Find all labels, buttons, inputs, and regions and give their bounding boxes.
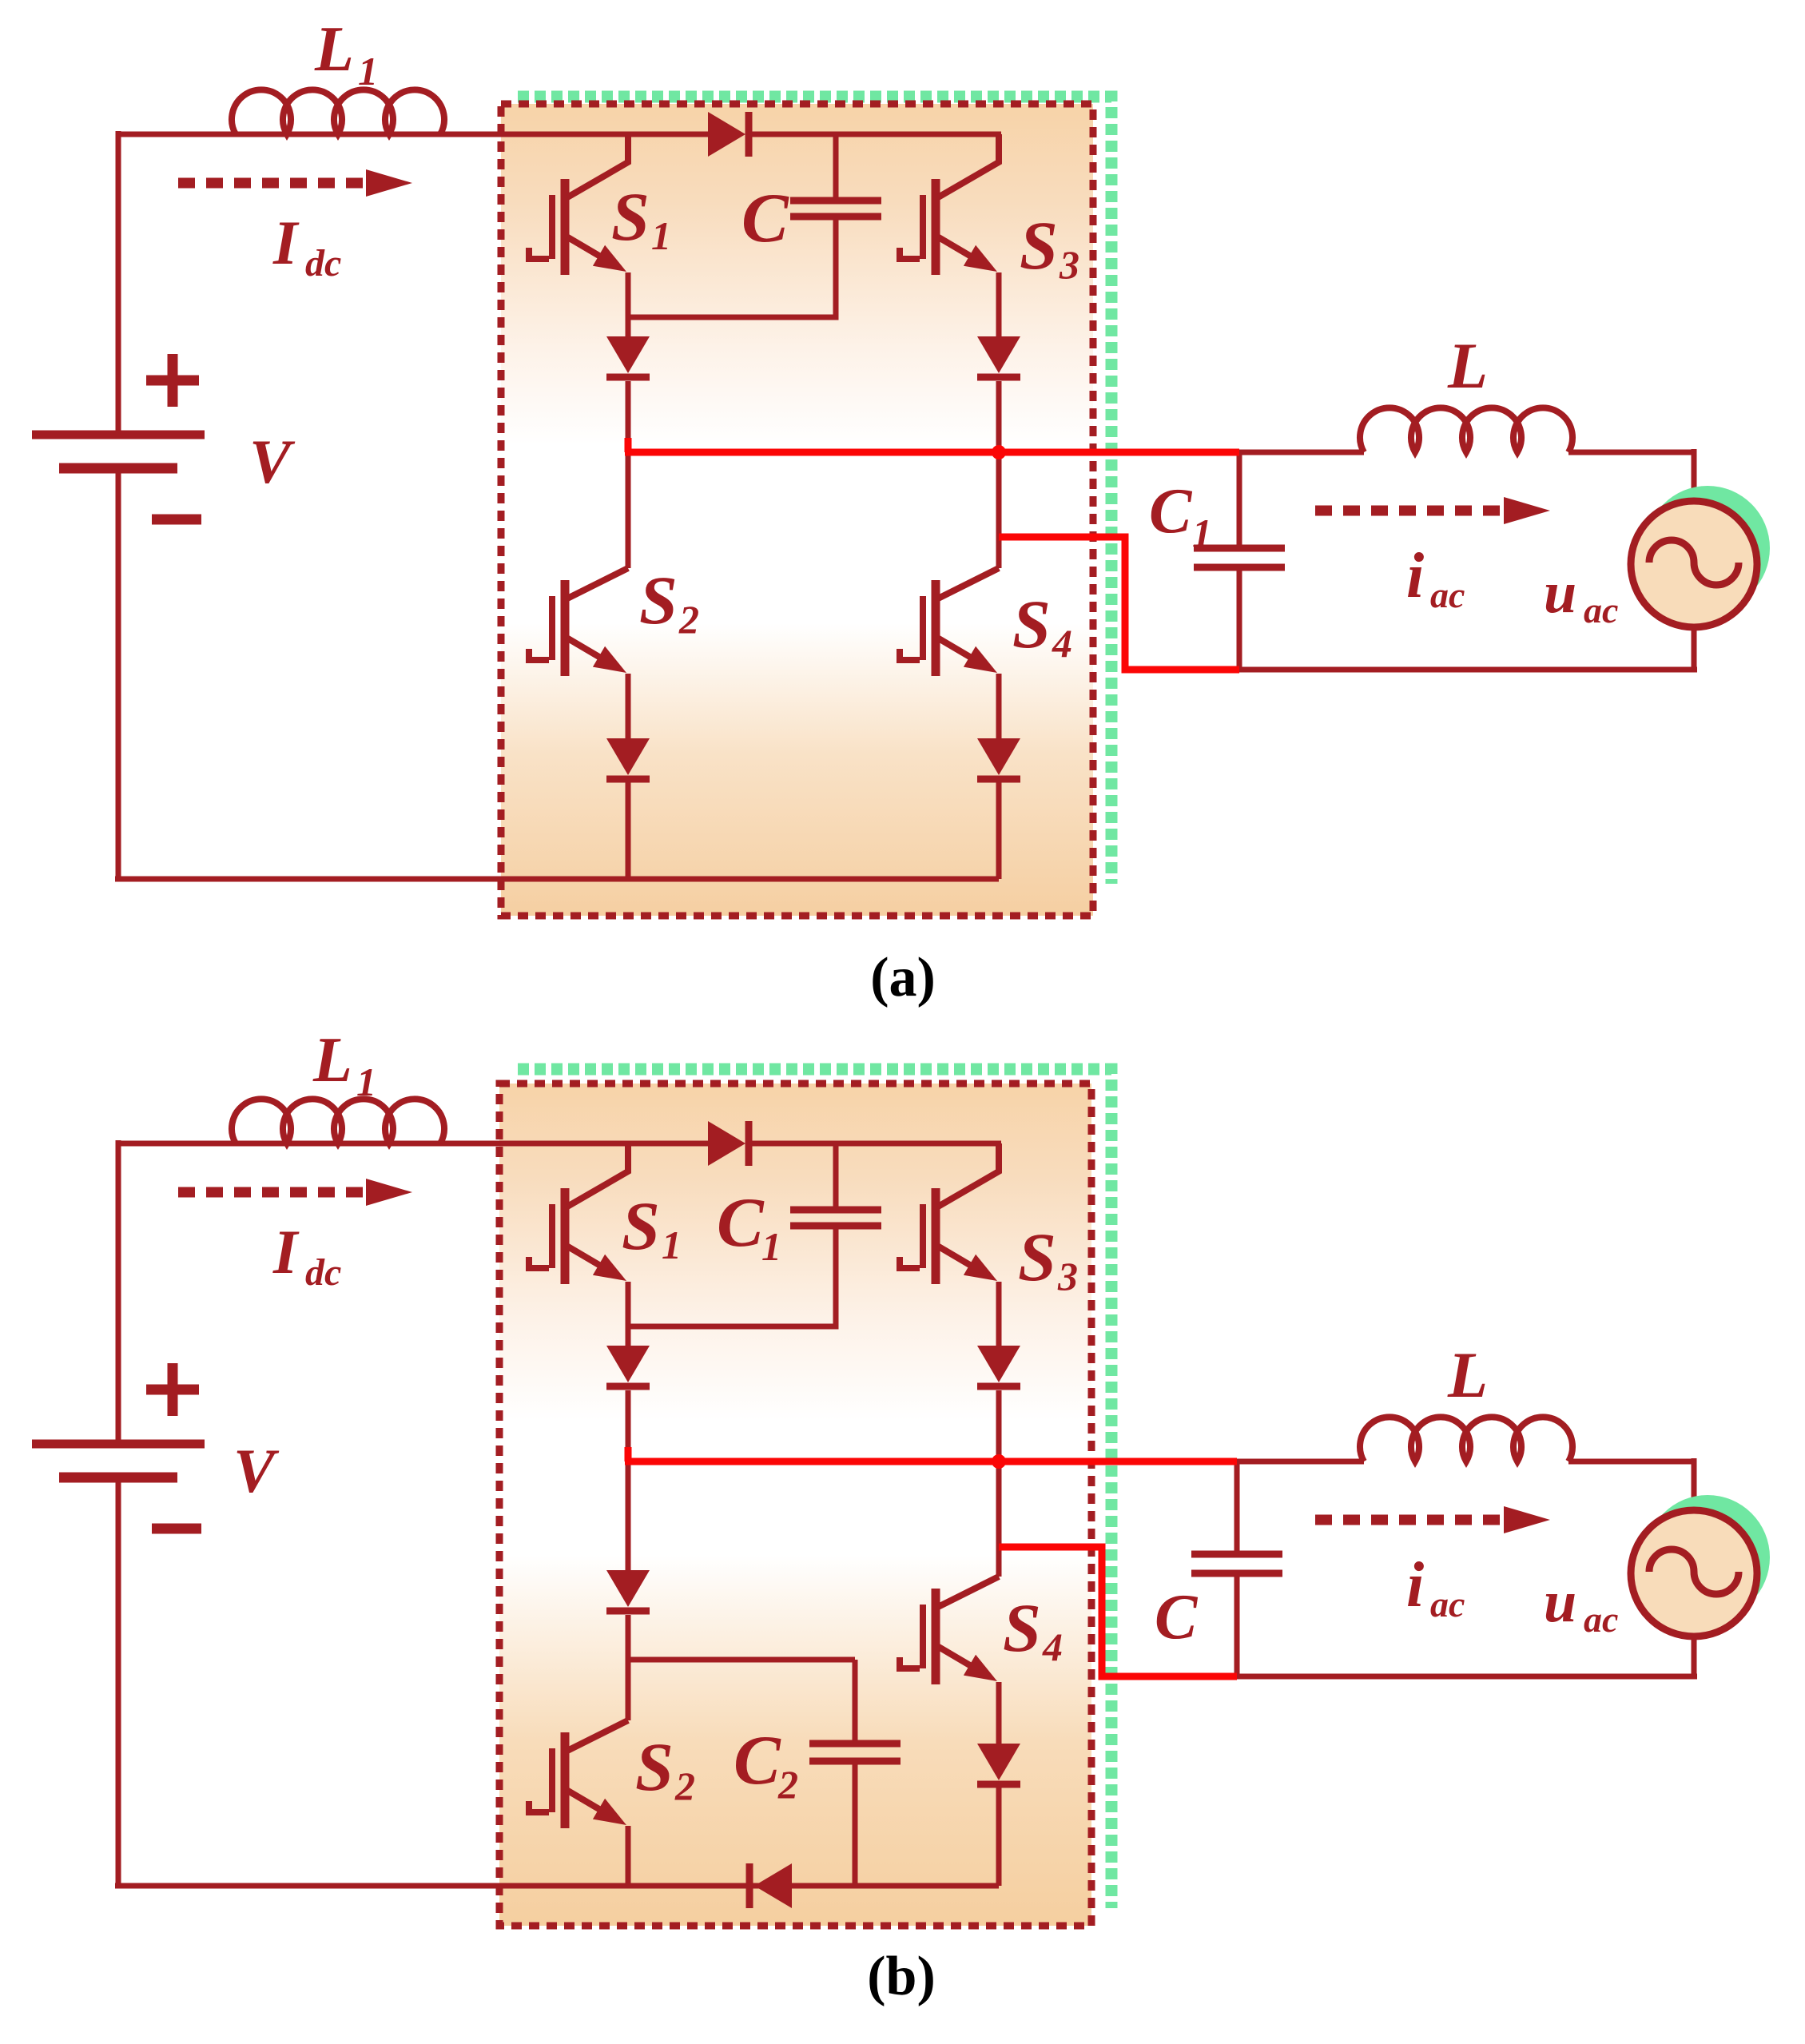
svg-text:C: C [741, 180, 789, 257]
svg-text:dc: dc [305, 242, 341, 284]
svg-text:S: S [622, 1187, 660, 1264]
svg-text:I: I [272, 1217, 300, 1286]
svg-text:u: u [1544, 1569, 1576, 1635]
svg-text:(b): (b) [867, 1946, 936, 2007]
svg-text:S: S [1020, 207, 1058, 284]
svg-text:C: C [1149, 476, 1193, 547]
svg-text:4: 4 [1052, 621, 1072, 666]
svg-text:1: 1 [662, 1223, 682, 1267]
svg-text:S: S [1003, 1589, 1041, 1666]
svg-text:S: S [1012, 586, 1051, 662]
svg-text:ac: ac [1584, 1599, 1618, 1640]
svg-text:i: i [1406, 541, 1424, 611]
svg-text:(a): (a) [870, 947, 936, 1008]
svg-text:1: 1 [651, 213, 671, 258]
svg-text:I: I [272, 208, 300, 277]
svg-text:dc: dc [305, 1251, 341, 1294]
svg-text:L: L [1447, 1338, 1488, 1411]
svg-text:S: S [611, 178, 650, 255]
svg-text:1: 1 [761, 1224, 781, 1269]
svg-text:C: C [717, 1184, 765, 1262]
svg-text:S: S [639, 562, 678, 638]
svg-text:1: 1 [358, 49, 378, 93]
svg-text:i: i [1406, 1550, 1424, 1620]
svg-text:V: V [249, 427, 296, 496]
svg-text:3: 3 [1059, 242, 1079, 287]
svg-text:2: 2 [678, 597, 699, 642]
svg-text:V: V [233, 1436, 280, 1505]
svg-text:4: 4 [1042, 1624, 1063, 1669]
svg-text:L: L [314, 14, 354, 85]
svg-text:3: 3 [1057, 1254, 1078, 1298]
svg-text:L: L [1447, 329, 1488, 402]
svg-text:u: u [1544, 560, 1576, 626]
svg-text:S: S [635, 1728, 674, 1805]
svg-text:1: 1 [1192, 511, 1212, 555]
svg-text:1: 1 [356, 1060, 376, 1104]
svg-text:ac: ac [1430, 575, 1465, 615]
svg-text:ac: ac [1584, 590, 1618, 630]
svg-text:2: 2 [777, 1762, 798, 1807]
svg-text:C: C [1155, 1582, 1199, 1652]
svg-text:ac: ac [1430, 1584, 1465, 1624]
svg-text:2: 2 [674, 1764, 695, 1808]
svg-text:S: S [1018, 1219, 1056, 1295]
svg-text:L: L [312, 1025, 352, 1096]
svg-text:C: C [734, 1722, 781, 1799]
